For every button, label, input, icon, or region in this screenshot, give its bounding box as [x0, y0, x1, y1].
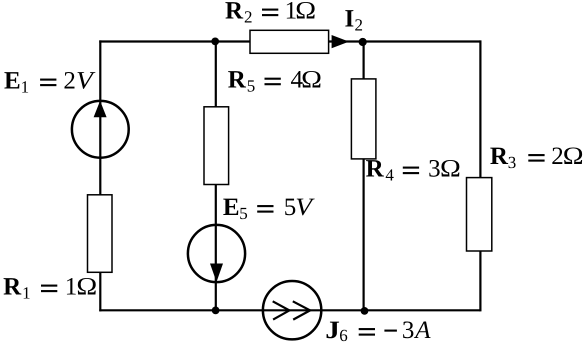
- svg-text:1: 1: [21, 78, 30, 97]
- svg-text:J: J: [325, 317, 340, 344]
- label E5 = 5V: [223, 194, 315, 223]
- voltage source E1 (circle with up arrow): [72, 101, 129, 158]
- svg-text:3: 3: [508, 153, 517, 172]
- current arrow I2: [332, 35, 349, 48]
- resistor R3: [467, 178, 492, 251]
- wire bottom horizontal: [99, 309, 480, 311]
- svg-text:R: R: [225, 0, 244, 25]
- svg-text:2: 2: [355, 15, 364, 34]
- svg-text:R: R: [3, 274, 22, 301]
- label R2 = 1Ohm: [225, 0, 316, 27]
- svg-text:E: E: [4, 68, 21, 95]
- resistor R1: [88, 195, 113, 272]
- svg-text:1: 1: [65, 274, 78, 301]
- svg-text:3: 3: [402, 317, 415, 344]
- wire right branch (R3): [479, 40, 481, 311]
- svg-text:2: 2: [63, 68, 76, 95]
- svg-text:5: 5: [247, 77, 256, 96]
- svg-text:Ω: Ω: [440, 156, 461, 183]
- node junction bottom (R4 bottom): [361, 307, 369, 315]
- label E1 = 2V: [4, 68, 96, 97]
- current source J6 (circle with double chevron): [263, 281, 321, 339]
- svg-text:6: 6: [339, 326, 348, 344]
- label R5 = 4Ohm: [228, 67, 322, 96]
- svg-text:Ω: Ω: [563, 143, 584, 170]
- svg-text:R: R: [366, 156, 385, 183]
- svg-text:R: R: [228, 67, 247, 94]
- svg-text:1: 1: [22, 284, 31, 303]
- label R1 = 1Ohm: [3, 274, 97, 303]
- resistor R2: [250, 30, 329, 53]
- svg-text:5: 5: [239, 204, 248, 223]
- svg-text:I: I: [345, 5, 355, 32]
- wire top horizontal: [99, 40, 480, 42]
- wire R4 branch: [363, 42, 365, 311]
- svg-text:3: 3: [428, 156, 441, 183]
- svg-text:A: A: [413, 317, 431, 344]
- node junction I2: [359, 38, 367, 46]
- resistor R4: [351, 79, 376, 159]
- svg-text:R: R: [490, 143, 509, 170]
- svg-text:Ω: Ω: [295, 0, 316, 25]
- label J6 = -3A: [325, 317, 431, 344]
- svg-text:Ω: Ω: [76, 274, 97, 301]
- svg-text:4: 4: [385, 166, 394, 185]
- node junction top (R5 top): [211, 38, 219, 46]
- node junction bottom (E5 bottom): [212, 307, 220, 315]
- voltage source E5 (circle with down arrow): [188, 225, 245, 282]
- wire left branch (E1,R1): [99, 40, 101, 311]
- label I2: [345, 5, 364, 34]
- svg-text:E: E: [223, 194, 240, 221]
- svg-text:Ω: Ω: [301, 67, 322, 94]
- svg-text:2: 2: [244, 8, 253, 27]
- label R4 = 3Ohm: [366, 156, 461, 185]
- wire middle branch (R5,E5): [215, 42, 217, 311]
- label R3 = 2Ohm: [490, 143, 584, 172]
- resistor R5: [204, 107, 229, 185]
